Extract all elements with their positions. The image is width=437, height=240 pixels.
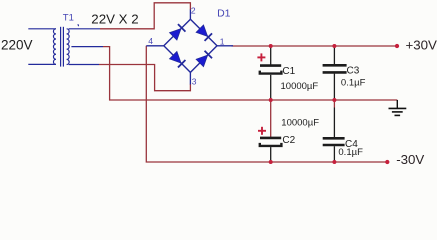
capacitor C1 negative plate: [260, 71, 282, 74]
capacitor C4 bottom lead: [333, 146, 335, 162]
ground rail end / earth symbol: [389, 100, 407, 115]
transformer secondary pin tick: [77, 24, 80, 26]
svg-text:220V: 220V: [1, 37, 33, 52]
capacitor C2 plus sign: [258, 130, 266, 132]
transformer T1 core: [60, 27, 62, 67]
junction dot C1/C2 mid: [269, 98, 273, 102]
transformer T1 secondary centre tap lead: [71, 46, 103, 48]
svg-text:D1: D1: [217, 7, 231, 19]
bridge pin 2 stub: [189, 10, 191, 20]
capacitor C1 positive plate: [260, 64, 281, 67]
junction dot C3/C4 mid: [332, 98, 336, 102]
junction dot C4 bottom: [332, 160, 336, 164]
capacitor C4 top plate: [323, 137, 345, 140]
bridge pin 4 stub: [146, 45, 164, 47]
terminal dot +30V: [395, 44, 399, 48]
wire: bridge pin 1 to +30V rail: [232, 45, 398, 47]
svg-text:C2: C2: [282, 135, 295, 146]
svg-text:10000µF: 10000µF: [281, 118, 319, 129]
capacitor C3 top lead: [333, 46, 335, 65]
bridge pin 3 stub: [189, 72, 191, 84]
capacitor C4 top lead: [333, 100, 335, 108]
junction dot C1 top: [269, 44, 273, 48]
svg-text:+30V: +30V: [406, 37, 437, 52]
capacitor C2 top lead (wire): [270, 100, 272, 138]
capacitor C1 top lead: [270, 46, 272, 65]
svg-text:0.1µF: 0.1µF: [341, 77, 366, 88]
svg-text:-30V: -30V: [396, 152, 424, 167]
svg-text:T1: T1: [63, 13, 74, 24]
capacitor C1 plus sign: [257, 56, 265, 58]
capacitor C3 bottom plate: [323, 71, 347, 74]
transformer T1 secondary bottom lead: [69, 64, 99, 66]
wire: secondary top to bridge pin 2: [100, 3, 190, 29]
junction dot C2 bottom: [269, 160, 273, 164]
diode D1a (pin4 to pin2): [170, 24, 186, 40]
terminal dot -30V: [385, 160, 389, 164]
svg-text:0.1µF: 0.1µF: [338, 147, 363, 158]
svg-text:2: 2: [191, 6, 196, 16]
svg-text:C3: C3: [347, 65, 360, 76]
transformer T1 primary top lead: [28, 28, 56, 30]
bridge rectifier D1 outline: [164, 19, 217, 72]
diode D1b (pin2 to pin1): [196, 25, 212, 41]
svg-text:4: 4: [148, 36, 153, 46]
svg-text:22V X 2: 22V X 2: [91, 11, 138, 26]
capacitor C4 bottom plate: [323, 144, 345, 147]
wire: bridge pin 4 to -30V rail: [146, 46, 387, 162]
capacitor C2 positive plate: [260, 137, 281, 140]
svg-text:10000µF: 10000µF: [281, 81, 319, 92]
svg-text:1: 1: [220, 36, 225, 46]
transformer T1 primary bottom lead: [28, 63, 56, 65]
transformer T1 primary winding: [53, 29, 56, 65]
transformer T1 secondary top lead: [69, 28, 100, 30]
capacitor C2 negative plate: [260, 143, 282, 146]
transformer T1 secondary winding: [67, 29, 70, 65]
svg-text:3: 3: [192, 77, 197, 87]
junction dot C3 top: [332, 44, 336, 48]
capacitor C2 bottom lead: [270, 147, 272, 162]
wire: centre tap down to ground rail: [103, 47, 397, 100]
bridge pin 1 stub: [217, 45, 233, 47]
svg-text:C1: C1: [282, 66, 295, 77]
diode D1c (pin4 to pin3): [170, 52, 186, 68]
capacitor C3 bottom lead: [333, 74, 335, 100]
capacitor C3 top plate: [323, 64, 347, 67]
diode D1d (pin3 to pin1): [196, 51, 212, 67]
wire: secondary bottom to bridge pin 3: [99, 65, 190, 91]
capacitor C1 bottom lead: [270, 75, 272, 100]
